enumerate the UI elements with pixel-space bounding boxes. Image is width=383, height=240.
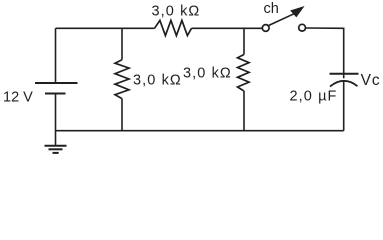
wire branch from top bus down to resistor R3v (243, 28, 245, 54)
switch ch: blade with arrowhead (269, 7, 304, 26)
wire branch from top bus down to resistor R2v (121, 28, 123, 59)
wire top bus from battery to resistor R1h (56, 27, 155, 29)
wire bottom bus (56, 130, 344, 132)
capacitor C1: straight top plate (330, 73, 359, 75)
svg-text:ch: ch (264, 1, 279, 17)
resistor R2v vertical 3,0 kOhm (115, 60, 129, 99)
svg-text:Vc: Vc (361, 72, 381, 89)
switch ch: right contact circle (299, 24, 306, 31)
wire from capacitor down to bottom-right corner (343, 82, 345, 131)
svg-text:3,0 kΩ: 3,0 kΩ (133, 72, 182, 88)
svg-text:12 V: 12 V (3, 90, 33, 106)
svg-text:3,0 kΩ: 3,0 kΩ (183, 65, 232, 81)
wire from R3v to bottom bus (243, 91, 245, 131)
battery V1: short negative plate (45, 93, 66, 95)
svg-text:3,0 kΩ: 3,0 kΩ (152, 4, 201, 20)
resistor R3v vertical 3,0 kOhm (238, 55, 250, 92)
switch ch: left contact circle (262, 25, 269, 32)
wire from battery negative plate down to bottom bus (55, 94, 57, 132)
wire from switch right contact to top-right corner and down to capacitor (306, 28, 344, 78)
battery V1: long positive plate (35, 82, 78, 84)
ground (45, 146, 67, 153)
svg-text:2,0 µF: 2,0 µF (290, 88, 338, 104)
wire left vertical from top bus to battery (55, 28, 57, 83)
wire from R2v to bottom bus (121, 99, 123, 131)
capacitor C1: curved bottom plate (330, 81, 358, 87)
wire from R1h to switch (192, 27, 263, 29)
resistor R1h horizontal 3,0 kOhm (155, 20, 192, 35)
wire stub from bottom bus to ground (55, 131, 57, 146)
